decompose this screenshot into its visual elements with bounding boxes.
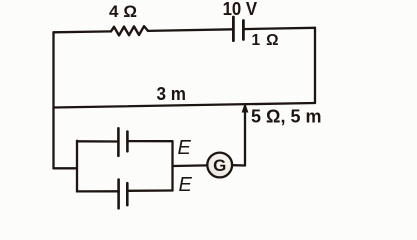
- wire: left vertical: [52, 32, 54, 168]
- wire: top-right segment: [243, 28, 315, 29]
- svg-text:1 Ω: 1 Ω: [252, 32, 279, 49]
- wire: left vertical to parallel box: [54, 167, 78, 169]
- cell E (top): [118, 128, 127, 156]
- svg-text:4 Ω: 4 Ω: [109, 2, 137, 21]
- svg-text:E: E: [178, 137, 192, 159]
- resistor 4 ohm zigzag: [111, 26, 148, 35]
- wire: bottom branch right: [127, 189, 172, 192]
- svg-text:5 Ω, 5 m: 5 Ω, 5 m: [251, 106, 321, 126]
- wire: parallel box right vertical: [171, 141, 173, 190]
- jockey arrow tap wire: [244, 108, 246, 166]
- wire: top branch right: [127, 140, 172, 142]
- wire: galvanometer to jockey: [232, 164, 245, 167]
- cell E (bottom): [119, 180, 128, 209]
- svg-text:10 V: 10 V: [223, 0, 258, 19]
- wire: right vertical: [314, 28, 316, 103]
- wire: top middle segment: [148, 29, 233, 31]
- svg-text:E: E: [179, 174, 193, 196]
- jockey arrowhead: [242, 103, 249, 113]
- svg-text:G: G: [213, 156, 226, 175]
- wire: top branch left: [77, 140, 118, 142]
- svg-text:3 m: 3 m: [157, 83, 187, 104]
- potentiometer wire 3 m: [54, 103, 316, 108]
- wire: bottom branch left: [77, 190, 119, 192]
- galvanometer G: [207, 153, 232, 178]
- wire: parallel box left vertical: [76, 141, 78, 192]
- battery 10 V: [233, 17, 243, 41]
- wire: box to galvanometer: [173, 164, 208, 167]
- wire: top-left horizontal segment: [54, 30, 112, 33]
